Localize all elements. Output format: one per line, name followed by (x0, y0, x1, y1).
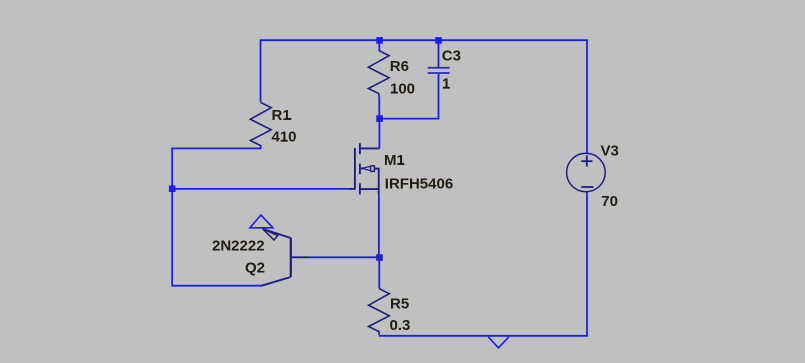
ground (488, 337, 509, 348)
wire C3 top stub (438, 40, 440, 67)
svg-text:R1: R1 (272, 107, 291, 124)
svg-text:2N2222: 2N2222 (212, 237, 265, 254)
svg-text:0.3: 0.3 (390, 317, 411, 334)
wire R1 bottom to left rail (171, 147, 261, 149)
wire M1 drain vertical (378, 119, 380, 149)
node C3 top junction (435, 37, 442, 44)
wire C3 bottom horizontal (379, 118, 438, 120)
Q2 emitter triangle (250, 215, 273, 228)
node drain junction (376, 115, 383, 122)
wire left vertical down (171, 148, 173, 287)
svg-text:100: 100 (390, 80, 415, 97)
wire bottom-left horizontal (171, 285, 261, 287)
svg-text:410: 410 (272, 129, 297, 146)
wire Q2 base to source node (308, 256, 380, 258)
wire bottom rail (379, 335, 587, 337)
node gate junction (169, 185, 176, 192)
wire C3 bottom stub (438, 74, 440, 120)
node source junction (376, 254, 383, 261)
wire source junction to R5 (378, 257, 380, 288)
wire R6 top stub (378, 40, 380, 50)
svg-text:1: 1 (442, 76, 450, 93)
wire right vertical upper (586, 39, 588, 153)
transistor Q2 (261, 229, 308, 286)
wire right vertical lower (586, 191, 588, 336)
svg-text:C3: C3 (442, 48, 461, 65)
wire gate horizontal (172, 188, 350, 190)
wire M1 source down to junction (378, 194, 380, 257)
voltage source V3 (567, 153, 606, 192)
resistor R6 (368, 51, 389, 97)
wire top rail (261, 39, 588, 41)
svg-text:R6: R6 (390, 58, 409, 75)
serif feet for digit 1 glyphs (281, 88, 449, 164)
wire R6 bottom to drain junction (378, 97, 380, 119)
svg-text:M1: M1 (384, 152, 405, 169)
svg-text:V3: V3 (601, 143, 619, 160)
svg-text:70: 70 (601, 193, 618, 210)
svg-text:R5: R5 (390, 295, 409, 312)
node top rail R6 junction (376, 37, 383, 44)
svg-text:Q2: Q2 (245, 259, 265, 276)
svg-text:IRFH5406: IRFH5406 (385, 176, 453, 193)
wire left vertical from top rail to R1 (260, 39, 262, 102)
resistor R1 (250, 103, 271, 149)
transistor M1 (350, 143, 380, 194)
capacitor C3 (428, 68, 450, 73)
resistor R5 (369, 289, 390, 336)
